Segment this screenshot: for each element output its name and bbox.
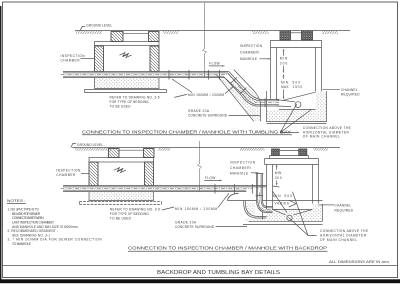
backdrop surround band around elbow [244, 201, 267, 218]
manhole M1 bench lines [277, 92, 316, 106]
main channel circle M2 [287, 215, 292, 220]
svg-text:BACKDROP AND TUMBLING BAY DETA: BACKDROP AND TUMBLING BAY DETAILS [157, 270, 280, 276]
svg-text:CONNECTION TO INSPECTION CHAMB: CONNECTION TO INSPECTION CHAMBER / MANHO… [128, 246, 327, 251]
scan edge bar left [0, 6, 1, 283]
svg-text:CHAMBER: CHAMBER [61, 59, 81, 63]
svg-text:ALL DIMENSIONS ARE IN mm.: ALL DIMENSIONS ARE IN mm. [329, 260, 390, 264]
chamber C2 neck block right [144, 149, 155, 158]
flow arrow top [209, 65, 225, 67]
main channel circle M1 [295, 102, 301, 108]
stub tick [264, 98, 266, 107]
svg-text:MIN 150MM / 200MM: MIN 150MM / 200MM [188, 93, 224, 97]
manhole M1 base outline [267, 91, 327, 124]
chamber C2 wall left [89, 162, 98, 186]
svg-text:500: 500 [285, 194, 293, 198]
manhole M2 floor line [273, 209, 313, 211]
manhole M1 cover block left [280, 31, 291, 40]
chamber C1 roof slab [95, 42, 160, 46]
chamber C1 wall right [150, 46, 159, 72]
drop pipe joint tick [256, 195, 264, 197]
backdrop surround stipple [247, 203, 255, 214]
svg-text:300: 300 [280, 62, 288, 66]
svg-text:MIN: MIN [280, 57, 288, 61]
ground level leader symbol top [80, 26, 85, 30]
svg-text:MIN: MIN [281, 80, 289, 84]
manhole M2 cover block left [272, 149, 280, 156]
leader refer-to-min150 diagonal bottom [162, 207, 174, 210]
svg-text:CHANNEL: CHANNEL [335, 203, 352, 207]
svg-text:CHANNEL: CHANNEL [341, 88, 358, 92]
backdrop drop pipe with rodding eye cap [255, 174, 263, 201]
svg-text:1. NO uPVC PIPE IS TO: 1. NO uPVC PIPE IS TO [8, 207, 40, 211]
svg-text:REQUIRED: REQUIRED [335, 208, 354, 212]
manhole M1 cover block right [302, 31, 313, 40]
ramp joint ticks [231, 77, 247, 93]
flow arrow bottom [204, 179, 222, 181]
ground hatch bottom segments [75, 148, 111, 151]
manhole M2 cover seat [279, 150, 298, 152]
svg-text:MANHOLE: MANHOLE [240, 57, 257, 61]
svg-text:GRADE 20A: GRADE 20A [175, 221, 197, 225]
leader connection-above M2 [289, 192, 317, 236]
leader connection-above M1 [280, 104, 311, 133]
dimension MIN 500 arrows M1 [283, 74, 285, 98]
manhole M2 top slab [265, 156, 319, 165]
svg-text:VARIES: VARIES [275, 202, 290, 206]
chamber C2 interior break symbol [114, 168, 126, 173]
manhole M2 wall right [313, 165, 319, 204]
manhole M1 base stipple [267, 110, 327, 121]
svg-text:INSPECTION: INSPECTION [230, 161, 256, 165]
svg-text:MAX: MAX [281, 85, 289, 89]
ramp centreline [229, 75, 280, 103]
svg-text:GROUND LEVEL: GROUND LEVEL [77, 143, 103, 147]
manhole M2 cover block right [299, 149, 307, 156]
chamber C2 cover seat line [119, 149, 144, 151]
chamber C1 neck block right [149, 32, 160, 42]
svg-text:CONNECTION ABOVE THE: CONNECTION ABOVE THE [303, 126, 351, 130]
chamber C1 bedding slab [85, 90, 167, 93]
svg-text:INSPECTION: INSPECTION [240, 44, 263, 48]
flow direction open arrow M2 [289, 200, 296, 207]
manhole M2 bench lines [273, 210, 312, 215]
chamber C2 roof slab [89, 158, 154, 163]
svg-text:FLOW: FLOW [209, 61, 220, 65]
sewer pipe P1 horizontal [63, 72, 229, 79]
svg-text:300: 300 [275, 176, 282, 180]
manhole M2 base outline [243, 204, 323, 225]
concrete surround stipple [219, 78, 260, 121]
svg-text:FLOW: FLOW [205, 176, 216, 180]
manhole M1 cover seat [291, 32, 302, 34]
surround boundary under pipe P2 [228, 193, 323, 200]
leader min150 left to pipe [172, 79, 192, 93]
svg-text:CONNECTION ABOVE THE: CONNECTION ABOVE THE [320, 229, 368, 233]
chamber C1 wall left [95, 46, 104, 72]
ground level leader symbol bottom [71, 143, 76, 147]
backdrop centreline [259, 192, 281, 209]
svg-text:FOR TYPE OF BEDDING: FOR TYPE OF BEDDING [110, 100, 150, 104]
svg-text:REFER TO DRAWING NO. 3-5: REFER TO DRAWING NO. 3-5 [110, 96, 160, 100]
ramp sloped pipe (tumbling bay) [224, 72, 280, 107]
ground hatch top segments [76, 31, 102, 34]
sewer pipe P2 horizontal [63, 186, 267, 193]
svg-text:INSPECTION: INSPECTION [56, 169, 81, 173]
svg-text:CHAMBER/: CHAMBER/ [230, 166, 251, 170]
manhole M1 floor line [279, 109, 316, 111]
svg-text:GROUND LEVEL: GROUND LEVEL [86, 23, 112, 27]
svg-text:500: 500 [293, 80, 301, 84]
svg-text:TO BE USED: TO BE USED [110, 105, 132, 109]
svg-text:MIN: MIN [273, 194, 281, 198]
svg-text:TO BE USED: TO BE USED [110, 217, 132, 221]
pipe P2 centreline [61, 188, 253, 190]
concrete surround upper boundary [234, 70, 261, 122]
svg-text:MIN: MIN [275, 171, 282, 175]
leader grade20A surround bottom [216, 226, 248, 228]
svg-text:NOTES :: NOTES : [7, 199, 26, 203]
chamber C2 wall right [145, 162, 154, 186]
leader channel required M1 [323, 88, 341, 90]
manhole M2 discharge invert [273, 186, 287, 213]
pipe P1 joint ticks [169, 70, 220, 80]
manhole M1 top slab [271, 35, 322, 48]
chamber C2 neck block left [109, 149, 120, 158]
svg-text:MANHOLE: MANHOLE [230, 172, 248, 176]
chamber C1 base concrete [95, 78, 160, 89]
pipe P2 joint ticks [215, 184, 253, 194]
break line vertical top [203, 3, 207, 77]
chamber C2 base concrete [89, 192, 154, 201]
svg-text:1500: 1500 [293, 85, 303, 89]
manhole M2 wall left [267, 165, 273, 210]
svg-text:CHAMBER/: CHAMBER/ [240, 51, 259, 55]
svg-text:MIN 150MM / 200MM: MIN 150MM / 200MM [175, 207, 217, 211]
svg-text:REFER TO DRAWING NO. 3-5: REFER TO DRAWING NO. 3-5 [110, 208, 160, 212]
manhole M2 base stipple [266, 210, 322, 221]
backdrop drop elbow and stub [256, 199, 272, 213]
chamber C2 bedding slab [80, 202, 162, 205]
chamber C1 neck block left [111, 32, 123, 42]
leader grade20A surround [229, 115, 260, 117]
manhole M1 wall left [271, 48, 277, 100]
svg-text:OF MAIN CHANNEL: OF MAIN CHANNEL [303, 135, 340, 139]
ground line top [75, 30, 350, 32]
leader min150 to pipe bottom [218, 193, 229, 207]
chamber C1 interior break symbol [120, 53, 132, 58]
svg-text:FOR TYPE OF BEDDING: FOR TYPE OF BEDDING [110, 212, 150, 216]
scan edge bar bottom [0, 279, 400, 283]
title strip line [3, 264, 398, 266]
svg-text:HORIZONTAL DIAMETER: HORIZONTAL DIAMETER [320, 233, 367, 237]
leader manhole label M2 [251, 172, 259, 174]
dimension MIN 300 arrows M2 [263, 165, 277, 220]
leader refer-to-min150 diagonal [174, 94, 187, 97]
leader manhole label M1 [260, 58, 271, 60]
svg-text:CONNECTION TO INSPECTION CHAMB: CONNECTION TO INSPECTION CHAMBER / MANHO… [82, 129, 291, 134]
manhole M1 wall right [316, 48, 322, 92]
svg-text:REQUIRED: REQUIRED [341, 93, 360, 97]
svg-text:CONCRETE SURROUND: CONCRETE SURROUND [175, 225, 215, 229]
svg-text:HORIZONTAL DIAMETER: HORIZONTAL DIAMETER [303, 130, 350, 134]
ground line bottom [72, 147, 340, 149]
dimension MIN 300 arrows M1 [283, 49, 285, 72]
svg-text:TO MANHOLE: TO MANHOLE [12, 242, 31, 246]
leader inspection chamber label C2 [81, 173, 89, 175]
chamber C1 cover seat line [123, 32, 149, 34]
svg-text:OF MAIN CHANNEL: OF MAIN CHANNEL [320, 238, 357, 242]
svg-text:CHAMBER: CHAMBER [56, 173, 76, 177]
svg-text:CONCRETE SURROUND: CONCRETE SURROUND [188, 113, 228, 117]
svg-text:LAST INSPECTION CHAMBER: LAST INSPECTION CHAMBER [12, 220, 54, 224]
pipe P1 centreline [61, 74, 230, 76]
leader inspection chamber label C1 [81, 58, 95, 60]
svg-text:GRADE 20A: GRADE 20A [188, 109, 210, 113]
break line vertical bottom [198, 141, 202, 191]
leader channel required M2 [319, 204, 335, 206]
concrete surround lower boundary [217, 75, 254, 122]
leader min150 to pipe [225, 87, 233, 94]
